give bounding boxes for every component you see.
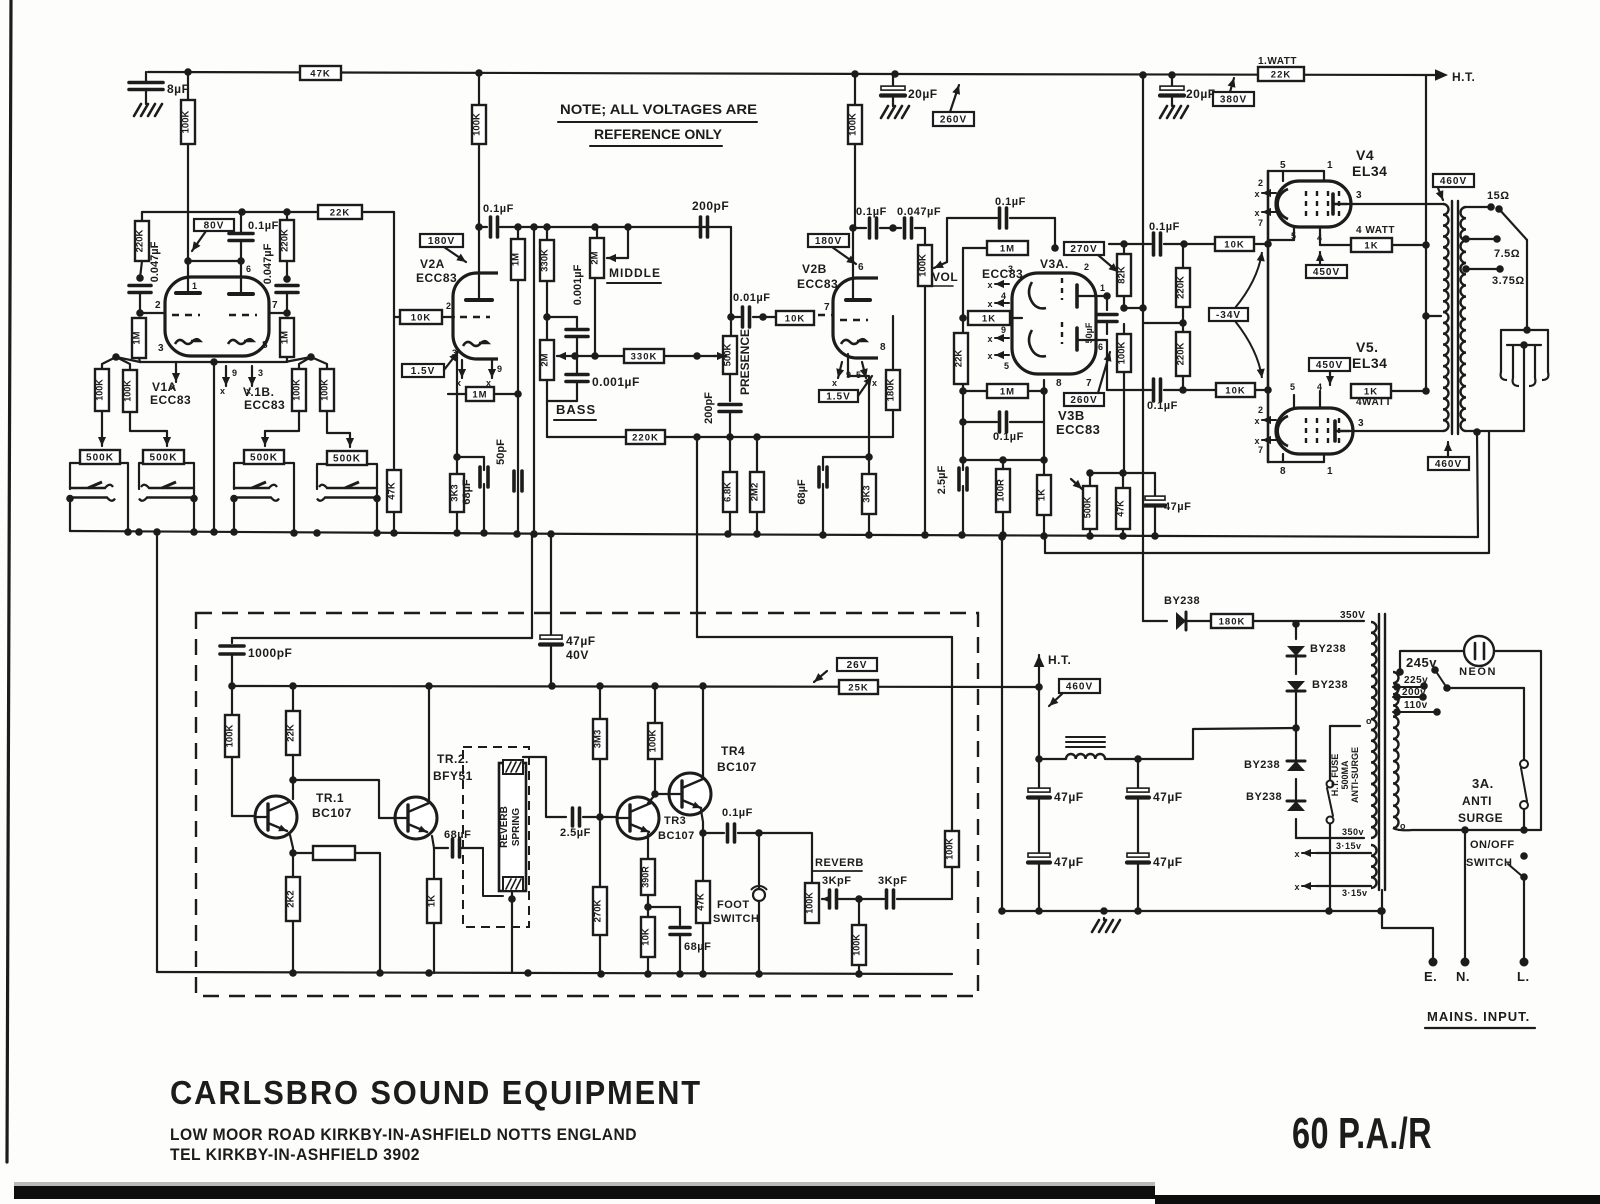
- svg-text:460V: 460V: [1435, 459, 1462, 470]
- svg-text:22K: 22K: [286, 724, 297, 742]
- transformer heater winding: [1371, 838, 1377, 888]
- svg-text:3A.: 3A.: [1472, 776, 1494, 791]
- wire reverb return: [951, 831, 953, 899]
- resistor 100K anode V1A: [181, 72, 196, 261]
- wire V1B grid: [269, 300, 287, 313]
- label V2B ECC83: [797, 262, 838, 291]
- node OT center tap: [1422, 312, 1441, 320]
- svg-text:22K: 22K: [1271, 70, 1291, 81]
- svg-text:NOTE; ALL VOLTAGES ARE: NOTE; ALL VOLTAGES ARE: [560, 101, 757, 117]
- node V1A grid: [136, 309, 144, 317]
- label 260V V3B: [1064, 352, 1111, 406]
- label V3A: [982, 257, 1106, 293]
- capacitor 3KpF b: [878, 875, 908, 908]
- wire E terminal: [1378, 907, 1437, 984]
- svg-text:0.001µF: 0.001µF: [592, 375, 640, 389]
- svg-text:460V: 460V: [1066, 682, 1093, 693]
- svg-text:0.1µF: 0.1µF: [483, 203, 514, 215]
- svg-text:100K: 100K: [123, 380, 133, 402]
- wire pot feed 4: [327, 411, 354, 447]
- svg-text:TR3: TR3: [664, 815, 686, 827]
- svg-text:450V: 450V: [1313, 267, 1340, 278]
- label FOOT SWITCH: [713, 899, 759, 925]
- svg-text:10K: 10K: [1224, 240, 1244, 251]
- svg-text:x: x: [987, 351, 993, 361]
- svg-text:EL34: EL34: [1352, 163, 1387, 179]
- wire to spring: [483, 848, 503, 896]
- capacitor 47uF c: [1127, 759, 1183, 852]
- tube V3 envelope: [1012, 273, 1096, 374]
- node bass wiper: [571, 352, 624, 360]
- svg-text:2M: 2M: [540, 353, 551, 366]
- svg-text:V.1B.: V.1B.: [243, 385, 274, 399]
- mains frame box: [1400, 651, 1541, 830]
- label 1.5V V2B: [819, 376, 872, 403]
- wire V4 top: [1268, 160, 1333, 181]
- wire middle bottom: [594, 278, 596, 356]
- svg-text:ANTI: ANTI: [1462, 794, 1492, 808]
- resistor 220K right: [280, 212, 295, 279]
- node presence tap: [727, 313, 735, 321]
- svg-text:500K: 500K: [333, 454, 361, 465]
- diode BY238 c: [1244, 728, 1305, 771]
- svg-text:225v: 225v: [1404, 675, 1428, 686]
- resistor 1M V3B: [987, 384, 1028, 398]
- svg-text:200v: 200v: [1402, 687, 1426, 698]
- svg-text:1: 1: [1327, 466, 1333, 477]
- tube V3A cathode: [1029, 282, 1046, 308]
- label 4WATT V4: [1356, 225, 1395, 236]
- svg-text:0.01µF: 0.01µF: [733, 292, 770, 304]
- wire 15ohm tap: [1466, 190, 1527, 240]
- svg-text:V3B: V3B: [1058, 408, 1085, 423]
- svg-text:220K: 220K: [135, 230, 146, 253]
- choke winding: [1039, 754, 1138, 759]
- svg-text:200pF: 200pF: [703, 392, 715, 424]
- fuse HT: [1327, 726, 1361, 911]
- potentiometer 500K fb: [1071, 473, 1097, 536]
- wire psu gnd left col: [998, 533, 1006, 915]
- reverb transducer top: [503, 760, 523, 774]
- potentiometer 2M bass: [540, 317, 575, 380]
- svg-text:SWITCH: SWITCH: [713, 913, 759, 925]
- svg-text:V2A: V2A: [420, 257, 445, 271]
- svg-text:4WATT: 4WATT: [1356, 397, 1392, 408]
- svg-text:25K: 25K: [848, 683, 868, 694]
- svg-text:CARLSBRO SOUND EQUIPMENT: CARLSBRO SOUND EQUIPMENT: [170, 1074, 702, 1111]
- wire reverb left column: [156, 532, 158, 972]
- tap 200V: [1393, 687, 1427, 701]
- svg-text:6.8K: 6.8K: [723, 482, 734, 502]
- svg-text:8: 8: [1056, 378, 1062, 389]
- wire rect top: [1296, 620, 1364, 622]
- wire phase splitter HT column: [1142, 75, 1144, 621]
- transformer OT core: [1452, 201, 1458, 434]
- svg-text:o: o: [1400, 821, 1406, 831]
- svg-text:100K: 100K: [292, 379, 302, 401]
- resistor 1K TR2: [427, 848, 442, 973]
- svg-text:47µF: 47µF: [1054, 790, 1084, 804]
- label MAINS INPUT: [1425, 1009, 1535, 1028]
- wire V4 cathode pins: [1268, 227, 1351, 245]
- transformer mains core: [1379, 614, 1385, 911]
- resistor 3M3: [593, 686, 608, 817]
- label 60 PA/R: [1292, 1109, 1432, 1158]
- wire V1 cathode bus: [140, 358, 285, 366]
- node V3A grid node: [1051, 244, 1059, 252]
- svg-text:500K: 500K: [150, 453, 178, 464]
- svg-text:500K: 500K: [86, 453, 114, 464]
- wire L terminal: [1517, 877, 1530, 984]
- svg-text:TEL KIRKBY-IN-ASHFIELD 3902: TEL KIRKBY-IN-ASHFIELD 3902: [170, 1145, 420, 1164]
- svg-text:7.5Ω: 7.5Ω: [1494, 248, 1520, 260]
- wire TR3 collector: [648, 723, 655, 803]
- resistor 1K V3A: [968, 311, 1022, 325]
- wire TR1 base: [232, 815, 255, 817]
- wire spring out: [523, 757, 566, 817]
- svg-text:V1A: V1A: [152, 380, 177, 394]
- svg-text:x: x: [872, 378, 878, 388]
- svg-text:BY238: BY238: [1312, 679, 1348, 691]
- node 1M mid: [514, 390, 522, 398]
- wire 3.75ohm tap: [1462, 265, 1525, 287]
- svg-text:V2B: V2B: [802, 262, 827, 276]
- diode BY238 d: [1246, 779, 1305, 838]
- svg-text:0.001µF: 0.001µF: [572, 264, 584, 305]
- resistor 100K mix: [852, 899, 867, 973]
- resistor 100K in1: [95, 369, 110, 411]
- wire heater taps: [1294, 841, 1371, 898]
- transistor TR4 BC107: [669, 773, 711, 815]
- label V3 pins bottom: [1056, 342, 1104, 389]
- svg-text:9: 9: [497, 364, 503, 374]
- svg-text:0.1µF: 0.1µF: [248, 220, 279, 232]
- capacitor 68uF V2A: [457, 457, 488, 533]
- wire secondary bottom: [1466, 428, 1524, 436]
- wire 473 row: [1086, 469, 1155, 477]
- svg-text:TR.1: TR.1: [316, 791, 344, 805]
- svg-text:180K: 180K: [886, 379, 897, 402]
- svg-text:3K3: 3K3: [450, 484, 461, 501]
- label 270V: [1064, 242, 1118, 272]
- svg-text:100K: 100K: [648, 730, 659, 753]
- resistor 82K: [1117, 244, 1132, 308]
- svg-text:10K: 10K: [1225, 386, 1245, 397]
- svg-text:BY238: BY238: [1310, 643, 1346, 655]
- node wire2 junctions: [238, 208, 291, 216]
- resistor 47K TR4: [696, 833, 711, 973]
- tube V2A cathode: [463, 341, 488, 346]
- svg-text:x: x: [987, 280, 993, 290]
- svg-text:100K: 100K: [1117, 342, 1128, 365]
- wire return top: [697, 437, 952, 637]
- svg-text:SWITCH: SWITCH: [1466, 857, 1512, 869]
- capacitor 2.5uF TR3: [560, 808, 618, 839]
- title CARLSBRO SOUND EQUIPMENT: [170, 1074, 702, 1111]
- resistor 1M V1A grid: [132, 318, 147, 362]
- svg-text:3·15v: 3·15v: [1336, 841, 1362, 851]
- resistor 47K fb: [1116, 473, 1131, 536]
- capacitor 3KpF a: [830, 890, 837, 908]
- resistor 100K TR4 base: [648, 686, 663, 794]
- svg-text:47µF: 47µF: [1054, 855, 1084, 869]
- svg-text:1K: 1K: [1037, 489, 1048, 501]
- choke core: [1066, 737, 1105, 747]
- svg-text:ECC83: ECC83: [150, 393, 191, 407]
- svg-text:270K: 270K: [593, 900, 604, 923]
- capacitor 0.1uF V1: [229, 212, 279, 261]
- svg-text:9: 9: [1001, 325, 1007, 335]
- wire V1 anode feed: [142, 211, 394, 213]
- svg-text:0.1µF: 0.1µF: [1149, 221, 1180, 233]
- reverb spring body: [499, 763, 526, 891]
- svg-text:100K: 100K: [95, 379, 105, 401]
- svg-text:10K: 10K: [785, 314, 805, 325]
- label BY238 bias: [1164, 595, 1200, 607]
- jack input 4 wires: [317, 464, 377, 498]
- svg-text:100K: 100K: [848, 113, 859, 136]
- label HT arrow psu: [1034, 653, 1072, 687]
- resistor 100K anode V2B: [848, 74, 863, 228]
- jack input 3: [230, 482, 279, 531]
- resistor emitter TR1: [293, 846, 355, 860]
- capacitor 200pF presence: [703, 374, 741, 437]
- svg-text:3: 3: [258, 368, 264, 378]
- node tone stack top: [514, 223, 632, 231]
- resistor 100K in3: [292, 369, 307, 411]
- label ON/OFF SWITCH: [1466, 839, 1515, 869]
- wire pot feed 1: [98, 411, 106, 446]
- wire V2A cathode: [453, 352, 461, 461]
- svg-text:47K: 47K: [387, 482, 398, 500]
- node V1A anode: [136, 257, 192, 282]
- capacitor 0.001uF b: [566, 356, 640, 401]
- wire 0.1uF V3B row: [963, 387, 1048, 422]
- svg-text:50µF: 50µF: [1084, 322, 1094, 343]
- svg-text:ECC83: ECC83: [244, 398, 285, 412]
- tube V1 ECC83 envelope: [165, 277, 269, 356]
- svg-text:x: x: [1254, 189, 1260, 199]
- resistor 22K V3 tail: [954, 333, 969, 384]
- svg-text:x: x: [1254, 208, 1260, 218]
- reverb spring dashed box: [463, 747, 529, 927]
- wire tone mid column: [533, 227, 535, 533]
- tap 225V: [1393, 675, 1428, 691]
- svg-text:10K: 10K: [411, 313, 431, 324]
- svg-text:0.047µF: 0.047µF: [262, 243, 274, 284]
- svg-text:68µF: 68µF: [461, 479, 473, 505]
- svg-text:47µF: 47µF: [1164, 501, 1191, 513]
- tube V2B grid: [840, 319, 868, 322]
- wire TR2 emitter: [432, 836, 448, 848]
- capacitor 47uF b: [1028, 853, 1084, 911]
- svg-text:220K: 220K: [280, 229, 291, 252]
- label 460V OT bottom: [1428, 442, 1469, 470]
- label 460V psu: [1049, 679, 1100, 706]
- ground psu: [1092, 918, 1120, 932]
- wire rect bottom: [1296, 827, 1364, 838]
- bottom gray strip: [14, 1182, 1155, 1186]
- svg-text:1000pF: 1000pF: [248, 646, 292, 660]
- tube V1 plates: [176, 261, 253, 294]
- capacitor 0.001uF a: [566, 264, 588, 356]
- svg-text:x: x: [832, 378, 838, 388]
- svg-text:9: 9: [232, 368, 238, 378]
- capacitor 20uF decoupling V2: [881, 74, 938, 104]
- svg-text:o: o: [1366, 716, 1372, 726]
- wire V4 pin3: [1347, 190, 1444, 204]
- svg-text:7: 7: [1086, 378, 1092, 389]
- label 350V top: [1340, 610, 1365, 621]
- wire 68uF TR3 branch: [648, 907, 680, 925]
- svg-text:BY238: BY238: [1244, 759, 1280, 771]
- label 0 marks: [1366, 716, 1406, 831]
- capacitor 0.047uF right: [262, 243, 298, 312]
- node bias node: [1292, 620, 1300, 628]
- svg-text:3K3: 3K3: [862, 485, 873, 502]
- svg-text:220K: 220K: [1176, 343, 1187, 366]
- svg-text:2M2: 2M2: [750, 483, 761, 501]
- label 3A ANTI SURGE: [1458, 776, 1503, 825]
- svg-text:3KpF: 3KpF: [822, 875, 852, 887]
- label TR1: [312, 791, 352, 820]
- svg-text:450V: 450V: [1316, 360, 1343, 371]
- wire TR4 emitter: [701, 810, 703, 833]
- wire 1000pF feedback: [232, 535, 532, 638]
- tube V5 EL34: [1276, 408, 1353, 454]
- svg-text:100K: 100K: [945, 838, 955, 860]
- resistor 1M tone: [511, 227, 526, 533]
- capacitor 47uF d: [1127, 853, 1183, 911]
- resistor 47K top rail: [300, 66, 341, 80]
- svg-text:8: 8: [1280, 466, 1286, 477]
- wire TR1 fb: [355, 853, 380, 973]
- svg-text:H.T.: H.T.: [1048, 653, 1071, 667]
- potentiometer 500K vol4: [327, 451, 367, 465]
- resistor 6.8K: [723, 437, 738, 534]
- svg-text:0.1µF: 0.1µF: [1147, 400, 1178, 412]
- resistor 220K tone: [626, 430, 665, 444]
- svg-text:100K: 100K: [805, 892, 815, 914]
- node bus junctions: [124, 528, 1159, 540]
- bottom black bar left: [14, 1186, 1155, 1199]
- svg-text:47K: 47K: [310, 69, 330, 80]
- label HT fuse: [1330, 747, 1360, 803]
- svg-text:500MA: 500MA: [1340, 760, 1350, 790]
- resistor 1K V5: [1351, 384, 1430, 398]
- wire V3B grid net: [963, 390, 1044, 392]
- svg-text:26V: 26V: [847, 660, 868, 671]
- svg-text:1.5V: 1.5V: [411, 366, 436, 377]
- resistor 2K2: [286, 877, 301, 973]
- capacitor 0.1uF V3B grid: [993, 412, 1024, 443]
- resistor 10K V2A grid: [394, 212, 454, 324]
- capacitor 20uF decoupling output: [1160, 75, 1216, 104]
- capacitor 50pF: [495, 439, 522, 491]
- reverb dashed enclosure: [196, 613, 978, 996]
- svg-text:100K: 100K: [918, 254, 929, 277]
- node V2B cathode x: [832, 362, 878, 388]
- svg-text:BASS: BASS: [556, 402, 596, 417]
- svg-text:4 WATT: 4 WATT: [1356, 225, 1395, 236]
- svg-text:100K: 100K: [472, 113, 483, 136]
- wire V1 cathode drop: [213, 362, 215, 533]
- svg-text:1M: 1M: [511, 253, 522, 266]
- svg-text:260V: 260V: [1070, 395, 1097, 406]
- svg-text:1: 1: [1327, 160, 1333, 171]
- svg-text:MIDDLE: MIDDLE: [609, 266, 661, 280]
- wire HT column down: [1425, 75, 1427, 391]
- svg-text:100K: 100K: [181, 111, 192, 134]
- label TR2: [433, 752, 473, 783]
- svg-text:180V: 180V: [428, 236, 455, 247]
- wire 82K to HT col: [1124, 304, 1147, 312]
- node TR4 out: [699, 829, 707, 837]
- svg-text:8: 8: [262, 340, 268, 351]
- svg-text:x: x: [1294, 882, 1300, 892]
- svg-text:1K: 1K: [1364, 241, 1378, 252]
- capacitor 0.1uF V2A out: [483, 203, 514, 237]
- wire V3A bias column: [959, 248, 967, 460]
- label V1B ECC83: [243, 385, 285, 412]
- svg-text:380V: 380V: [1220, 95, 1247, 106]
- capacitor 47uF fb: [1145, 473, 1191, 536]
- svg-text:68µF: 68µF: [684, 941, 711, 953]
- node fs junction: [755, 829, 763, 837]
- wire 47K column: [393, 317, 395, 470]
- svg-text:47µF: 47µF: [566, 634, 596, 648]
- capacitor 8uF: [129, 72, 189, 102]
- svg-text:180K: 180K: [1219, 617, 1246, 628]
- bottom black bar right: [1155, 1195, 1600, 1204]
- ground below 20uF: [881, 104, 909, 118]
- wire TR4 collector: [702, 686, 704, 777]
- svg-text:4: 4: [1317, 382, 1323, 392]
- tube V1 grids: [172, 314, 257, 317]
- svg-text:68µF: 68µF: [444, 829, 471, 841]
- svg-text:V5.: V5.: [1356, 339, 1379, 355]
- svg-text:2.5µF: 2.5µF: [936, 466, 948, 495]
- svg-text:2: 2: [1084, 262, 1090, 272]
- speaker jack plugs: [1501, 341, 1549, 386]
- node V2A cathode x: [452, 348, 503, 388]
- node heater arrows V1: [170, 362, 264, 396]
- node V3 heater arrows: [987, 280, 1009, 371]
- wire 0.01uF row: [731, 316, 776, 318]
- svg-text:20µF: 20µF: [908, 87, 938, 101]
- resistor 22K 1watt: [1258, 67, 1304, 81]
- svg-text:2: 2: [1258, 178, 1264, 188]
- resistor 220K bias a: [1176, 244, 1191, 323]
- svg-text:2: 2: [446, 301, 452, 311]
- svg-text:68µF: 68µF: [796, 479, 808, 505]
- wire 1M left: [963, 247, 987, 249]
- wire 7.5ohm tap: [1462, 235, 1520, 260]
- wire V5 coupling row: [1107, 340, 1268, 394]
- svg-text:47K: 47K: [1116, 500, 1126, 517]
- label V5 EL34: [1352, 339, 1387, 371]
- wire sec ground col: [1477, 432, 1478, 537]
- svg-text:MAINS. INPUT.: MAINS. INPUT.: [1427, 1009, 1530, 1024]
- label V2A ECC83: [416, 257, 457, 285]
- ground below 20uF output: [1160, 104, 1188, 118]
- tube V1 cathodes: [158, 339, 268, 354]
- resistor 1K V3B cath: [1037, 460, 1052, 536]
- node 0.01 right: [759, 313, 767, 321]
- capacitor 68uF TR2: [444, 829, 483, 857]
- wire choke to diodes: [1138, 724, 1300, 759]
- jack input 4: [317, 482, 381, 533]
